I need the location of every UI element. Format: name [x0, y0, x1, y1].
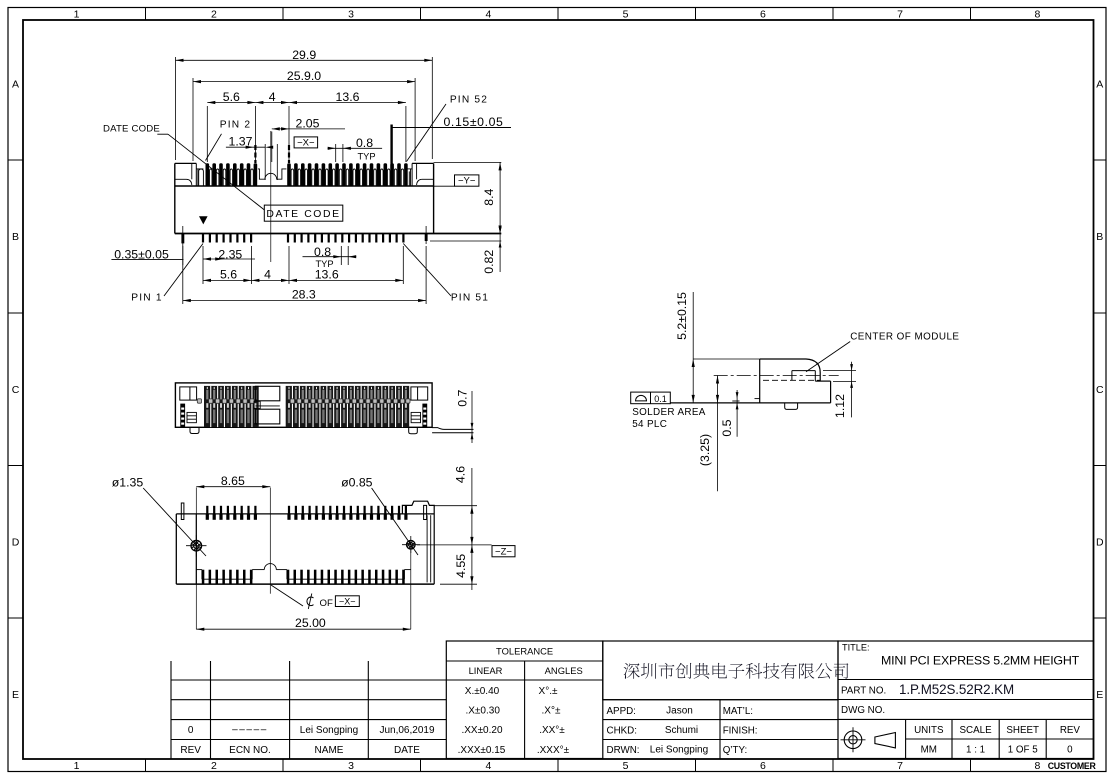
svg-text:Q’TY:: Q’TY: [723, 745, 748, 756]
svg-text:0.1: 0.1 [654, 394, 667, 404]
svg-text:CENTER OF MODULE: CENTER OF MODULE [850, 332, 959, 343]
svg-text:PART NO.: PART NO. [841, 686, 886, 697]
front view contact lead-in dashes [255, 145, 289, 163]
svg-text:3: 3 [348, 760, 354, 772]
front view left end pad [181, 226, 184, 265]
svg-text:4.6: 4.6 [453, 466, 467, 483]
svg-text:PIN 1: PIN 1 [131, 293, 162, 304]
svg-text:25.9.0: 25.9.0 [287, 69, 321, 83]
svg-text:13.6: 13.6 [336, 90, 360, 104]
svg-text:0.82: 0.82 [482, 250, 496, 274]
dim 5.6 / 4 / 13.6 bottom [203, 246, 403, 284]
svg-text:OF: OF [320, 598, 333, 609]
svg-text:0.8: 0.8 [356, 136, 373, 150]
label CENTER OF MODULE with leader [806, 332, 959, 372]
svg-text:1 : 1: 1 : 1 [966, 744, 985, 755]
svg-text:1: 1 [74, 760, 80, 772]
svg-text:0.5: 0.5 [720, 419, 734, 436]
svg-text:.X°±: .X°± [542, 706, 561, 717]
svg-text:CUSTOMER: CUSTOMER [1048, 761, 1097, 771]
top view contact stripes [204, 386, 409, 427]
svg-text:6: 6 [760, 760, 766, 772]
dim 4.55 and datum -Z- [417, 506, 515, 590]
title box bottom grid [906, 719, 1094, 758]
third angle projection symbol [841, 727, 896, 752]
label ⌀1.35 with leader [112, 475, 206, 556]
svg-text:.XXX±0.15: .XXX±0.15 [458, 745, 506, 756]
svg-text:29.9: 29.9 [292, 48, 316, 62]
dim 25.9.0 [193, 69, 415, 161]
tolerance table [446, 641, 603, 759]
front view left mounting lug [175, 163, 204, 186]
svg-text:1: 1 [74, 8, 80, 20]
label centerline OF -X- [271, 585, 359, 609]
svg-text:3: 3 [348, 8, 354, 20]
svg-text:–––––: ––––– [232, 725, 268, 736]
dim 0.8 TYP bottom [303, 245, 357, 269]
svg-text:TOLERANCE: TOLERANCE [496, 646, 553, 657]
svg-text:C: C [1096, 384, 1104, 396]
svg-text:7: 7 [897, 760, 903, 772]
svg-text:TITLE:: TITLE: [842, 643, 870, 653]
svg-text:13.6: 13.6 [315, 267, 339, 281]
dim 28.3 [183, 246, 426, 304]
front view comb arches [199, 169, 410, 186]
svg-text:Jun,06,2019: Jun,06,2019 [379, 725, 434, 736]
bottom view bottom teeth row [196, 564, 410, 584]
dim 0.8 TYP top [328, 136, 383, 162]
svg-text:6: 6 [760, 8, 766, 20]
svg-text:0.8: 0.8 [314, 245, 331, 259]
svg-text:.XXX°±: .XXX°± [537, 745, 570, 756]
dim 4.6 [434, 466, 477, 545]
side view module card [714, 371, 839, 382]
key centerline [270, 131, 272, 262]
svg-text:CHKD:: CHKD: [607, 726, 637, 737]
svg-text:MINI PCI EXPRESS 5.2MM HEIGHT: MINI PCI EXPRESS 5.2MM HEIGHT [881, 653, 1080, 667]
svg-text:2: 2 [211, 760, 217, 772]
company name box [603, 641, 849, 700]
svg-text:2.05: 2.05 [296, 117, 320, 131]
svg-text:REV: REV [1060, 725, 1081, 736]
front view right mounting lug [408, 163, 434, 186]
svg-text:DATE CODE: DATE CODE [103, 124, 160, 135]
svg-text:SOLDER AREA: SOLDER AREA [632, 407, 706, 418]
svg-text:ø0.85: ø0.85 [341, 475, 373, 489]
svg-text:APPD:: APPD: [607, 706, 636, 717]
svg-text:ECN NO.: ECN NO. [229, 745, 271, 756]
svg-text:PIN 2: PIN 2 [220, 119, 251, 130]
svg-text:DATE: DATE [394, 745, 420, 756]
label PIN 2 with leader [206, 119, 252, 160]
side view body outline [670, 359, 830, 409]
svg-text:7: 7 [897, 8, 903, 20]
bottom view top teeth row [206, 506, 408, 520]
svg-text:MM: MM [921, 744, 937, 755]
svg-text:2: 2 [211, 8, 217, 20]
datum -Y- box [434, 175, 479, 187]
svg-text:5: 5 [623, 8, 629, 20]
svg-text:C: C [12, 384, 20, 396]
dim 0.82 [430, 227, 502, 274]
svg-text:4: 4 [264, 267, 271, 281]
svg-text:Lei Songping: Lei Songping [650, 744, 708, 755]
svg-text:0.7: 0.7 [455, 389, 469, 406]
svg-text:PIN 52: PIN 52 [450, 94, 488, 105]
svg-text:NAME: NAME [315, 745, 344, 756]
svg-text:Lei Songping: Lei Songping [300, 725, 358, 736]
svg-text:B: B [1096, 231, 1103, 243]
bottom view right hole ⌀0.85 [402, 536, 420, 553]
bottom view centerline [269, 488, 271, 594]
svg-text:2.35: 2.35 [218, 247, 242, 261]
date code box on face [264, 205, 343, 221]
svg-text:−Z−: −Z− [495, 546, 512, 557]
svg-text:1.P.M52S.52R2.KM: 1.P.M52S.52R2.KM [899, 682, 1014, 697]
svg-text:E: E [1096, 689, 1103, 701]
svg-text:0.15±0.05: 0.15±0.05 [443, 115, 503, 129]
svg-text:1 OF 5: 1 OF 5 [1008, 744, 1038, 755]
svg-text:5.6: 5.6 [223, 90, 240, 104]
svg-text:Jason: Jason [666, 706, 693, 717]
front view key notch [258, 144, 287, 180]
svg-text:8.65: 8.65 [221, 474, 245, 488]
svg-text:D: D [1096, 537, 1104, 549]
dim 0.5 [720, 390, 738, 437]
svg-text:.X±0.30: .X±0.30 [465, 706, 500, 717]
svg-text:28.3: 28.3 [292, 288, 316, 302]
top view mounting feet [190, 427, 417, 433]
svg-text:UNITS: UNITS [914, 725, 944, 736]
svg-text:4.55: 4.55 [454, 554, 468, 578]
revision table [171, 661, 446, 759]
svg-text:B: B [12, 231, 19, 243]
svg-text:5.6: 5.6 [220, 267, 237, 281]
label DATE CODE with leader [103, 124, 265, 210]
svg-text:SHEET: SHEET [1006, 725, 1039, 736]
svg-text:(3.25): (3.25) [698, 434, 712, 466]
svg-text:SCALE: SCALE [960, 725, 993, 736]
svg-text:Schumi: Schumi [665, 725, 698, 736]
top view right end details [406, 387, 428, 427]
svg-text:4: 4 [485, 760, 491, 772]
dim 0.15±0.05 [392, 115, 511, 129]
svg-text:A: A [1096, 79, 1103, 91]
front view body outline [175, 163, 502, 233]
dim 0.7 [455, 389, 473, 443]
front view right end pad [425, 226, 428, 244]
dim 5.2±0.15 [675, 292, 695, 403]
svg-text:0: 0 [188, 725, 194, 736]
svg-text:A: A [12, 79, 19, 91]
top view left end details [180, 387, 202, 427]
svg-text:4: 4 [485, 8, 491, 20]
datum -X- box [294, 137, 318, 149]
label ⌀0.85 with leader [341, 475, 418, 555]
svg-text:1.37: 1.37 [229, 135, 253, 149]
approval rows [603, 700, 838, 759]
dim 29.9 [176, 48, 433, 160]
svg-text:5.2±0.15: 5.2±0.15 [675, 292, 689, 340]
dim 2.35 [203, 247, 255, 261]
top view right solder tab [432, 428, 473, 433]
dim 1.37 [226, 135, 273, 149]
svg-text:.XX°±: .XX°± [539, 725, 565, 736]
svg-text:REV: REV [180, 745, 201, 756]
svg-text:PIN 51: PIN 51 [451, 293, 489, 304]
svg-text:X.±0.40: X.±0.40 [465, 686, 500, 697]
svg-text:D: D [12, 537, 20, 549]
svg-text:25.00: 25.00 [295, 616, 326, 630]
svg-text:1.12: 1.12 [833, 394, 847, 418]
label PIN 1 with leader [131, 244, 203, 304]
dim 8.4 [434, 162, 502, 233]
dim 5.6 / 4 / 13.6 top [207, 90, 406, 162]
bottom view board lock stubs [181, 503, 426, 520]
svg-text:−X−: −X− [297, 138, 315, 149]
svg-text:DATE CODE: DATE CODE [266, 209, 340, 220]
svg-text:.XX±0.20: .XX±0.20 [461, 725, 503, 736]
svg-text:−Y−: −Y− [458, 176, 476, 187]
svg-text:ø1.35: ø1.35 [112, 475, 144, 489]
top view outline [175, 383, 432, 427]
bottom view body outline [176, 501, 434, 584]
dim (3.25) [698, 376, 719, 492]
svg-text:8: 8 [1034, 760, 1040, 772]
front view top contact pins row [206, 163, 408, 186]
svg-text:ANGLES: ANGLES [545, 665, 583, 676]
dim 0.35±0.05 [111, 247, 183, 261]
dim 1.12 [823, 362, 856, 418]
svg-text:0: 0 [1067, 744, 1073, 755]
label PIN 51 with leader [403, 244, 489, 304]
bottom view left hole ⌀1.35 [186, 535, 207, 557]
orientation triangle marker [199, 216, 208, 224]
svg-text:5: 5 [623, 760, 629, 772]
dim 8.65 [196, 474, 270, 489]
bottom view hole center ext lines [196, 488, 410, 630]
svg-text:E: E [12, 689, 19, 701]
front view bottom solder pins [202, 234, 405, 243]
top view key block [254, 386, 280, 424]
svg-text:FINISH:: FINISH: [723, 726, 758, 737]
svg-text:DWG NO.: DWG NO. [841, 705, 885, 716]
svg-text:TYP: TYP [357, 151, 375, 161]
front view pin52 extended contact [390, 125, 392, 187]
dim 2.05 [272, 117, 345, 162]
svg-text:DRWN:: DRWN: [607, 745, 640, 756]
svg-text:8: 8 [1034, 8, 1040, 20]
solder area symbol [631, 392, 706, 430]
title box [838, 641, 1094, 759]
svg-text:LINEAR: LINEAR [469, 665, 503, 676]
label PIN 52 with leader [407, 94, 489, 161]
dim 25.00 [196, 616, 410, 631]
svg-text:8.4: 8.4 [482, 188, 496, 205]
svg-text:MAT’L:: MAT’L: [723, 706, 753, 717]
svg-text:−X−: −X− [339, 596, 356, 606]
svg-text:4: 4 [269, 90, 276, 104]
svg-text:X°.±: X°.± [539, 686, 558, 697]
svg-text:54 PLC: 54 PLC [632, 419, 667, 430]
